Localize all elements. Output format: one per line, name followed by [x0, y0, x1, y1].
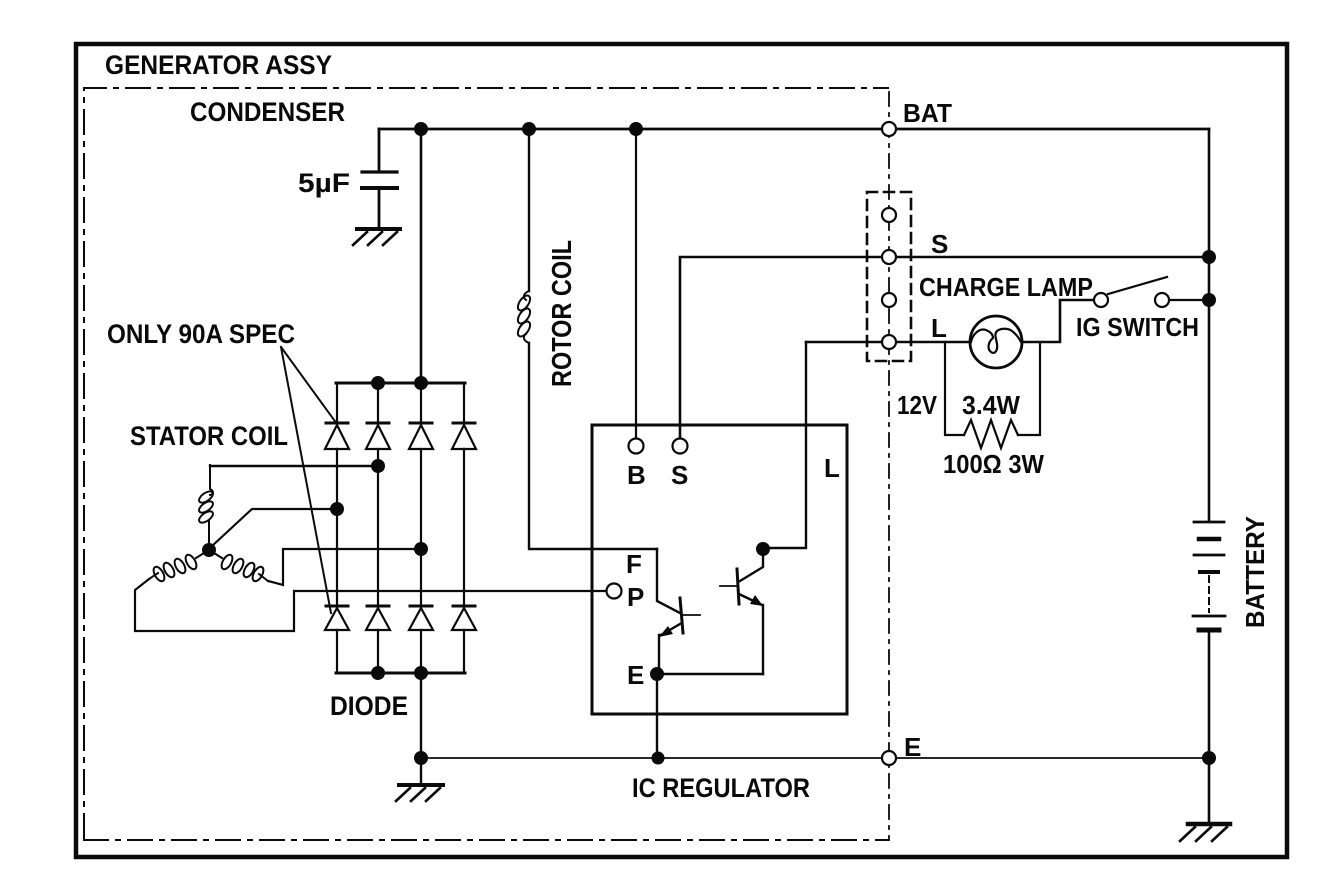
- diode D4 upper: [452, 423, 476, 449]
- node: diode top bus col2: [371, 376, 385, 390]
- transistor Q2 emitter arrowhead: [750, 595, 763, 606]
- capacitor C (condenser 5uF): [378, 129, 381, 171]
- svg-text:ROTOR COIL: ROTOR COIL: [546, 240, 577, 387]
- transistor Q2 collector: [740, 549, 763, 581]
- node: Q2 collector / L: [756, 542, 770, 556]
- node: stator star point: [202, 543, 216, 557]
- ground (diode bridge): [399, 783, 443, 787]
- leader line to lower 90A diode: [281, 347, 331, 613]
- transistor Q2 base bar: [737, 569, 739, 604]
- node: S line right rail: [1202, 250, 1216, 264]
- svg-text:E: E: [627, 660, 644, 690]
- diode column 4 conductors: [463, 383, 465, 673]
- node: bus-capacitor column: [414, 122, 428, 136]
- ground (battery): [1188, 822, 1230, 827]
- regulator pin P circle: [607, 584, 622, 599]
- diode column 2 conductors: [377, 383, 379, 673]
- diode D8 lower: [452, 606, 476, 630]
- diode D1 upper (90A spec): [325, 423, 349, 449]
- rotor coil L1 loops: [515, 291, 532, 343]
- node: E rail below regulator: [652, 752, 665, 765]
- svg-text:S: S: [671, 460, 688, 490]
- wire: regulator E internal: [657, 673, 763, 675]
- connector terminal 1: [882, 208, 896, 222]
- IG switch contact left: [1094, 293, 1108, 307]
- connector dashed box: [867, 192, 911, 361]
- wire: stator phase W to diode column 3: [268, 549, 421, 585]
- stator coil phase W loops (right): [214, 553, 268, 583]
- wire: L line lamp branch: [806, 341, 970, 344]
- diode bridge bottom bus: [336, 672, 465, 675]
- rotor coil wire lower / F lead into regulator: [529, 343, 657, 549]
- diode bridge top bus: [336, 382, 465, 385]
- diode D5 lower (90A spec): [325, 606, 349, 630]
- lamp filament: [971, 329, 1021, 353]
- wire: L lead from lamp node down into regulator: [763, 342, 806, 548]
- transistor Q1 base stub: [683, 614, 700, 616]
- wire: stator neutral to diode column 1: [212, 509, 337, 546]
- terminal circle E: [882, 751, 896, 765]
- svg-text:IC REGULATOR: IC REGULATOR: [632, 773, 810, 803]
- svg-text:12V: 12V: [897, 390, 938, 420]
- node: E rail at diode ground: [414, 751, 428, 765]
- wire: B lead from bus to regulator: [635, 129, 637, 439]
- wire: stator phase V lead to P line: [135, 579, 606, 631]
- transistor Q1 emitter: [659, 624, 680, 674]
- transistor Q2 emitter: [739, 594, 763, 674]
- rotor coil wire upper: [528, 129, 530, 291]
- node: bus-B lead: [629, 122, 643, 136]
- wire: stator phase U to diode column 2: [210, 465, 378, 467]
- svg-text:STATOR COIL: STATOR COIL: [130, 421, 288, 451]
- svg-text:CONDENSER: CONDENSER: [190, 97, 345, 127]
- node: neutral col1: [330, 502, 344, 516]
- svg-text:DIODE: DIODE: [330, 691, 408, 721]
- IG switch contact right: [1155, 293, 1169, 307]
- ground (condenser): [357, 227, 400, 231]
- node: diode bottom bus col3: [414, 666, 428, 680]
- transistor Q1 collector from F: [657, 549, 680, 613]
- wire: S lead from regulator up and right to connector: [680, 257, 1209, 439]
- node: E rail right rail: [1202, 751, 1216, 765]
- diode D3 upper: [409, 423, 433, 449]
- terminal circle L: [882, 335, 896, 349]
- wire: regulator E to E rail: [656, 674, 658, 758]
- IG switch blade: [1108, 277, 1167, 294]
- svg-text:B: B: [627, 460, 646, 490]
- svg-text:IG SWITCH: IG SWITCH: [1076, 312, 1199, 342]
- node: phase U col2: [371, 459, 385, 473]
- IC regulator box U1: [592, 425, 847, 714]
- svg-text:100Ω 3W: 100Ω 3W: [943, 449, 1044, 479]
- node: diode top bus col3: [414, 376, 428, 390]
- regulator pin S circle: [673, 439, 688, 454]
- terminal circle S: [882, 250, 896, 264]
- diode D7 lower: [409, 606, 433, 630]
- stator coil phase V loops (left): [149, 553, 204, 583]
- node: bus-rotor: [522, 122, 536, 136]
- terminal circle BAT: [882, 122, 896, 136]
- svg-text:3.4W: 3.4W: [962, 390, 1020, 420]
- node: diode bottom bus col2: [371, 666, 385, 680]
- battery dashed middle: [1208, 576, 1210, 612]
- stator coil phase U loops (vertical): [197, 465, 215, 544]
- resistor branch verticals: [945, 342, 964, 435]
- svg-text:F: F: [626, 549, 642, 579]
- wire: switch to right rail: [1169, 299, 1209, 301]
- svg-text:5µF: 5µF: [298, 168, 350, 198]
- diode column 1 conductors: [336, 383, 338, 673]
- wire: diode bottom bus to ground/E rail: [420, 673, 422, 784]
- resistor R 100ohm zigzag: [964, 420, 1018, 448]
- battery plates: [1194, 521, 1224, 524]
- svg-text:L: L: [824, 453, 840, 483]
- diode D6 lower: [366, 606, 390, 630]
- node: regulator E pin: [650, 667, 664, 681]
- svg-text:ONLY 90A SPEC: ONLY 90A SPEC: [107, 319, 295, 349]
- svg-text:CHARGE LAMP: CHARGE LAMP: [919, 272, 1093, 302]
- wire: E rail: [421, 757, 1209, 759]
- node: switch line right rail: [1202, 293, 1216, 307]
- connector terminal 3: [882, 293, 896, 307]
- wire: right rail below battery to ground: [1208, 631, 1211, 824]
- svg-text:S: S: [931, 229, 948, 259]
- svg-text:P: P: [627, 582, 644, 612]
- wire: main BAT bus: [379, 128, 1209, 131]
- diode D2 upper: [366, 423, 390, 449]
- generator assy dash-dot boundary (right side through connector): [888, 92, 890, 840]
- transistor Q2 base stub: [720, 585, 737, 587]
- diode column 3 conductors: [420, 383, 422, 673]
- wire: right rail (battery positive): [1208, 129, 1211, 521]
- svg-text:BATTERY: BATTERY: [1240, 516, 1270, 628]
- leader line to upper 90A diode: [281, 347, 337, 424]
- generator assy dash-dot boundary (left, top, bottom): [84, 88, 888, 838]
- charge lamp bulb: [970, 316, 1022, 368]
- svg-text:BAT: BAT: [903, 98, 952, 128]
- svg-text:GENERATOR ASSY: GENERATOR ASSY: [105, 50, 332, 80]
- wire: bus to diode bridge: [420, 129, 423, 383]
- node: phase W col3: [414, 542, 428, 556]
- transistor Q1 base bar: [680, 598, 683, 633]
- svg-text:L: L: [931, 313, 947, 343]
- transistor Q1 emitter arrowhead: [659, 626, 673, 637]
- svg-text:E: E: [904, 732, 921, 762]
- regulator pin B circle: [629, 439, 644, 454]
